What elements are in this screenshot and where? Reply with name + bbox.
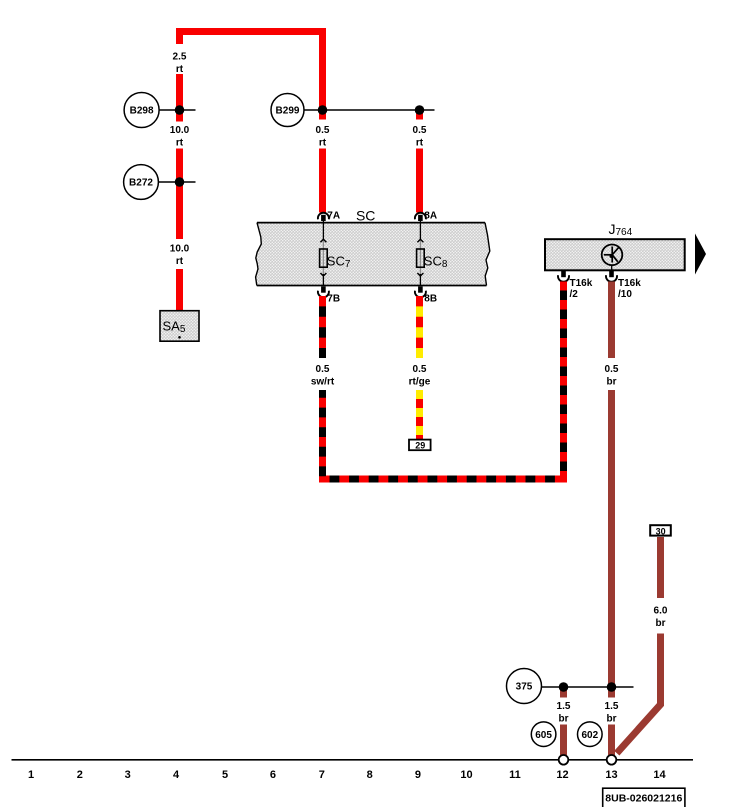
node 29 box [409, 440, 431, 451]
junction track4 B298 [175, 105, 185, 115]
wire 1.5 br track12 to ground [560, 725, 567, 756]
label 6.0 br [654, 606, 668, 629]
svg-text:12: 12 [556, 769, 568, 781]
fuse SC7 [320, 221, 351, 286]
wire bus 375 [542, 686, 634, 688]
wire 10.0 rt track4 into SA5 [176, 269, 183, 312]
svg-text:5: 5 [222, 769, 228, 781]
svg-text:sw/rt: sw/rt [311, 377, 335, 388]
svg-text:1: 1 [28, 769, 34, 781]
svg-text:rt: rt [319, 137, 327, 148]
svg-text:8: 8 [367, 769, 373, 781]
junction track9 [415, 105, 425, 115]
svg-text:8A: 8A [424, 211, 437, 222]
label 1.5 br track13 [605, 701, 619, 724]
track numbers [28, 769, 667, 781]
svg-text:/2: /2 [570, 289, 579, 300]
wire bus B299 [304, 109, 435, 111]
svg-text:0.5: 0.5 [316, 125, 330, 136]
wire 0.5 br track13 upper [608, 282, 615, 359]
wire 0.5 rt/ge upper segment below 8B [416, 296, 423, 358]
svg-text:rt: rt [176, 64, 184, 75]
svg-text:1.5: 1.5 [605, 701, 619, 712]
arrow continuation [695, 234, 706, 275]
wire 1.5 br track13 to ground [608, 725, 615, 756]
node 375 [507, 669, 542, 704]
label 0.5 sw/rt [311, 364, 335, 387]
svg-text:7A: 7A [327, 211, 340, 222]
junction track4 B272 [175, 177, 185, 187]
svg-text:602: 602 [581, 730, 598, 741]
label 0.5 rt/ge [409, 364, 431, 387]
label 0.5 rt track7 [316, 125, 330, 148]
label 10.0 rt lower [170, 244, 190, 267]
svg-text:2: 2 [77, 769, 83, 781]
svg-text:10.0: 10.0 [170, 244, 190, 255]
svg-text:6.0: 6.0 [654, 606, 668, 617]
svg-text:10.0: 10.0 [170, 125, 190, 136]
diagram code box [603, 788, 685, 807]
svg-text:10: 10 [460, 769, 472, 781]
label 2.5 rt [173, 52, 187, 75]
svg-text:0.5: 0.5 [413, 364, 427, 375]
node B299 [271, 94, 304, 127]
wire 0.5 br track13 long [608, 390, 615, 698]
node B272 [124, 165, 159, 200]
svg-text:0.5: 0.5 [316, 364, 330, 375]
node 602 [578, 722, 603, 747]
wire bus B272 [159, 181, 196, 183]
ground connection track12 [559, 755, 569, 765]
svg-text:4: 4 [173, 769, 180, 781]
svg-text:3: 3 [125, 769, 131, 781]
svg-text:rt/ge: rt/ge [409, 377, 431, 388]
svg-text:605: 605 [535, 730, 552, 741]
label 0.5 br [605, 364, 619, 387]
svg-text:6: 6 [270, 769, 276, 781]
junction track12 375 [559, 682, 569, 692]
svg-text:br: br [607, 377, 617, 388]
label 10.0 rt upper [170, 125, 190, 148]
ground connection track13 [607, 755, 617, 765]
label 1.5 br track12 [557, 701, 571, 724]
wire bus B298 [159, 109, 196, 111]
terminal T16k/10 [606, 271, 641, 300]
wire 1.5 br track12 stub [560, 687, 567, 698]
wire 2.5 rt top bar from track4 to track7 [180, 32, 323, 111]
svg-text:br: br [607, 713, 617, 724]
svg-text:B272: B272 [129, 178, 153, 189]
svg-text:29: 29 [415, 440, 425, 450]
svg-text:30: 30 [656, 527, 666, 537]
wire 0.5 sw/rt upper segment below 7B [319, 296, 326, 358]
bottom rail [12, 759, 694, 761]
svg-text:rt: rt [176, 137, 184, 148]
svg-text:7B: 7B [327, 294, 340, 305]
svg-text:SC: SC [356, 208, 375, 224]
svg-text:T16k: T16k [570, 278, 593, 289]
svg-text:11: 11 [509, 769, 521, 781]
symbol K in J764 [602, 245, 623, 271]
label 0.5 rt track9 [413, 125, 427, 148]
svg-text:8B: 8B [424, 294, 437, 305]
svg-text:rt: rt [176, 256, 184, 267]
svg-text:14: 14 [653, 769, 666, 781]
node 30 box [650, 525, 671, 536]
wire 0.5 sw/rt run to T16k/2 [323, 282, 564, 480]
ground plate SA5 [160, 311, 199, 342]
wire 6.0 br track14 upper [657, 537, 664, 598]
svg-text:7: 7 [319, 769, 325, 781]
wire 0.5 rt track7 stub below B299 node [319, 110, 326, 120]
wire 0.5 rt track9 stub below node [416, 110, 423, 120]
svg-text:br: br [559, 713, 569, 724]
node 605 [531, 722, 556, 747]
svg-text:9: 9 [415, 769, 421, 781]
junction track7 B299 [318, 105, 328, 115]
wire 6.0 br track14 diagonal to ground 13 [617, 634, 661, 754]
svg-text:1.5: 1.5 [557, 701, 571, 712]
svg-text:0.5: 0.5 [413, 125, 427, 136]
terminal 8B [415, 287, 437, 305]
svg-text:T16k: T16k [618, 278, 641, 289]
svg-text:B298: B298 [130, 106, 154, 117]
svg-text:/10: /10 [618, 289, 632, 300]
svg-text:2.5: 2.5 [173, 52, 187, 63]
terminal T16k/2 [558, 271, 593, 300]
control unit J764 [545, 221, 685, 270]
wire 0.5 rt/ge to node 29 [416, 390, 423, 440]
wire 10.0 rt track4 below label 2.5 to node B298 [176, 74, 183, 122]
fuse box SC [256, 223, 490, 286]
svg-text:8UB-026021216: 8UB-026021216 [605, 793, 682, 805]
fuse SC8 [417, 221, 448, 286]
svg-text:rt: rt [416, 137, 424, 148]
wire 10.0 rt track4 B298 to B272 [176, 149, 183, 240]
wire 0.5 rt track7 to fuse terminal 7A [319, 149, 326, 213]
terminal 8A [415, 211, 437, 222]
wire 0.5 rt track9 to fuse terminal 8A [416, 149, 423, 213]
node B298 [124, 93, 159, 128]
terminal 7B [318, 287, 340, 305]
svg-text:375: 375 [516, 682, 533, 693]
svg-text:0.5: 0.5 [605, 364, 619, 375]
svg-text:br: br [656, 618, 666, 629]
svg-text:B299: B299 [276, 106, 300, 117]
terminal 7A [318, 211, 340, 222]
svg-text:13: 13 [605, 769, 617, 781]
junction track13 375 [607, 682, 617, 692]
